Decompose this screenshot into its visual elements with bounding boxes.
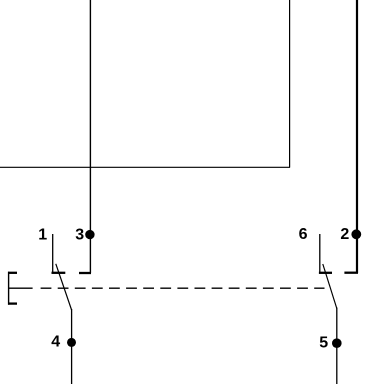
svg-text:2: 2: [340, 226, 349, 243]
svg-text:4: 4: [51, 334, 60, 351]
svg-text:6: 6: [299, 226, 308, 243]
svg-text:5: 5: [319, 335, 328, 352]
svg-text:1: 1: [38, 227, 47, 244]
svg-text:3: 3: [75, 227, 84, 244]
